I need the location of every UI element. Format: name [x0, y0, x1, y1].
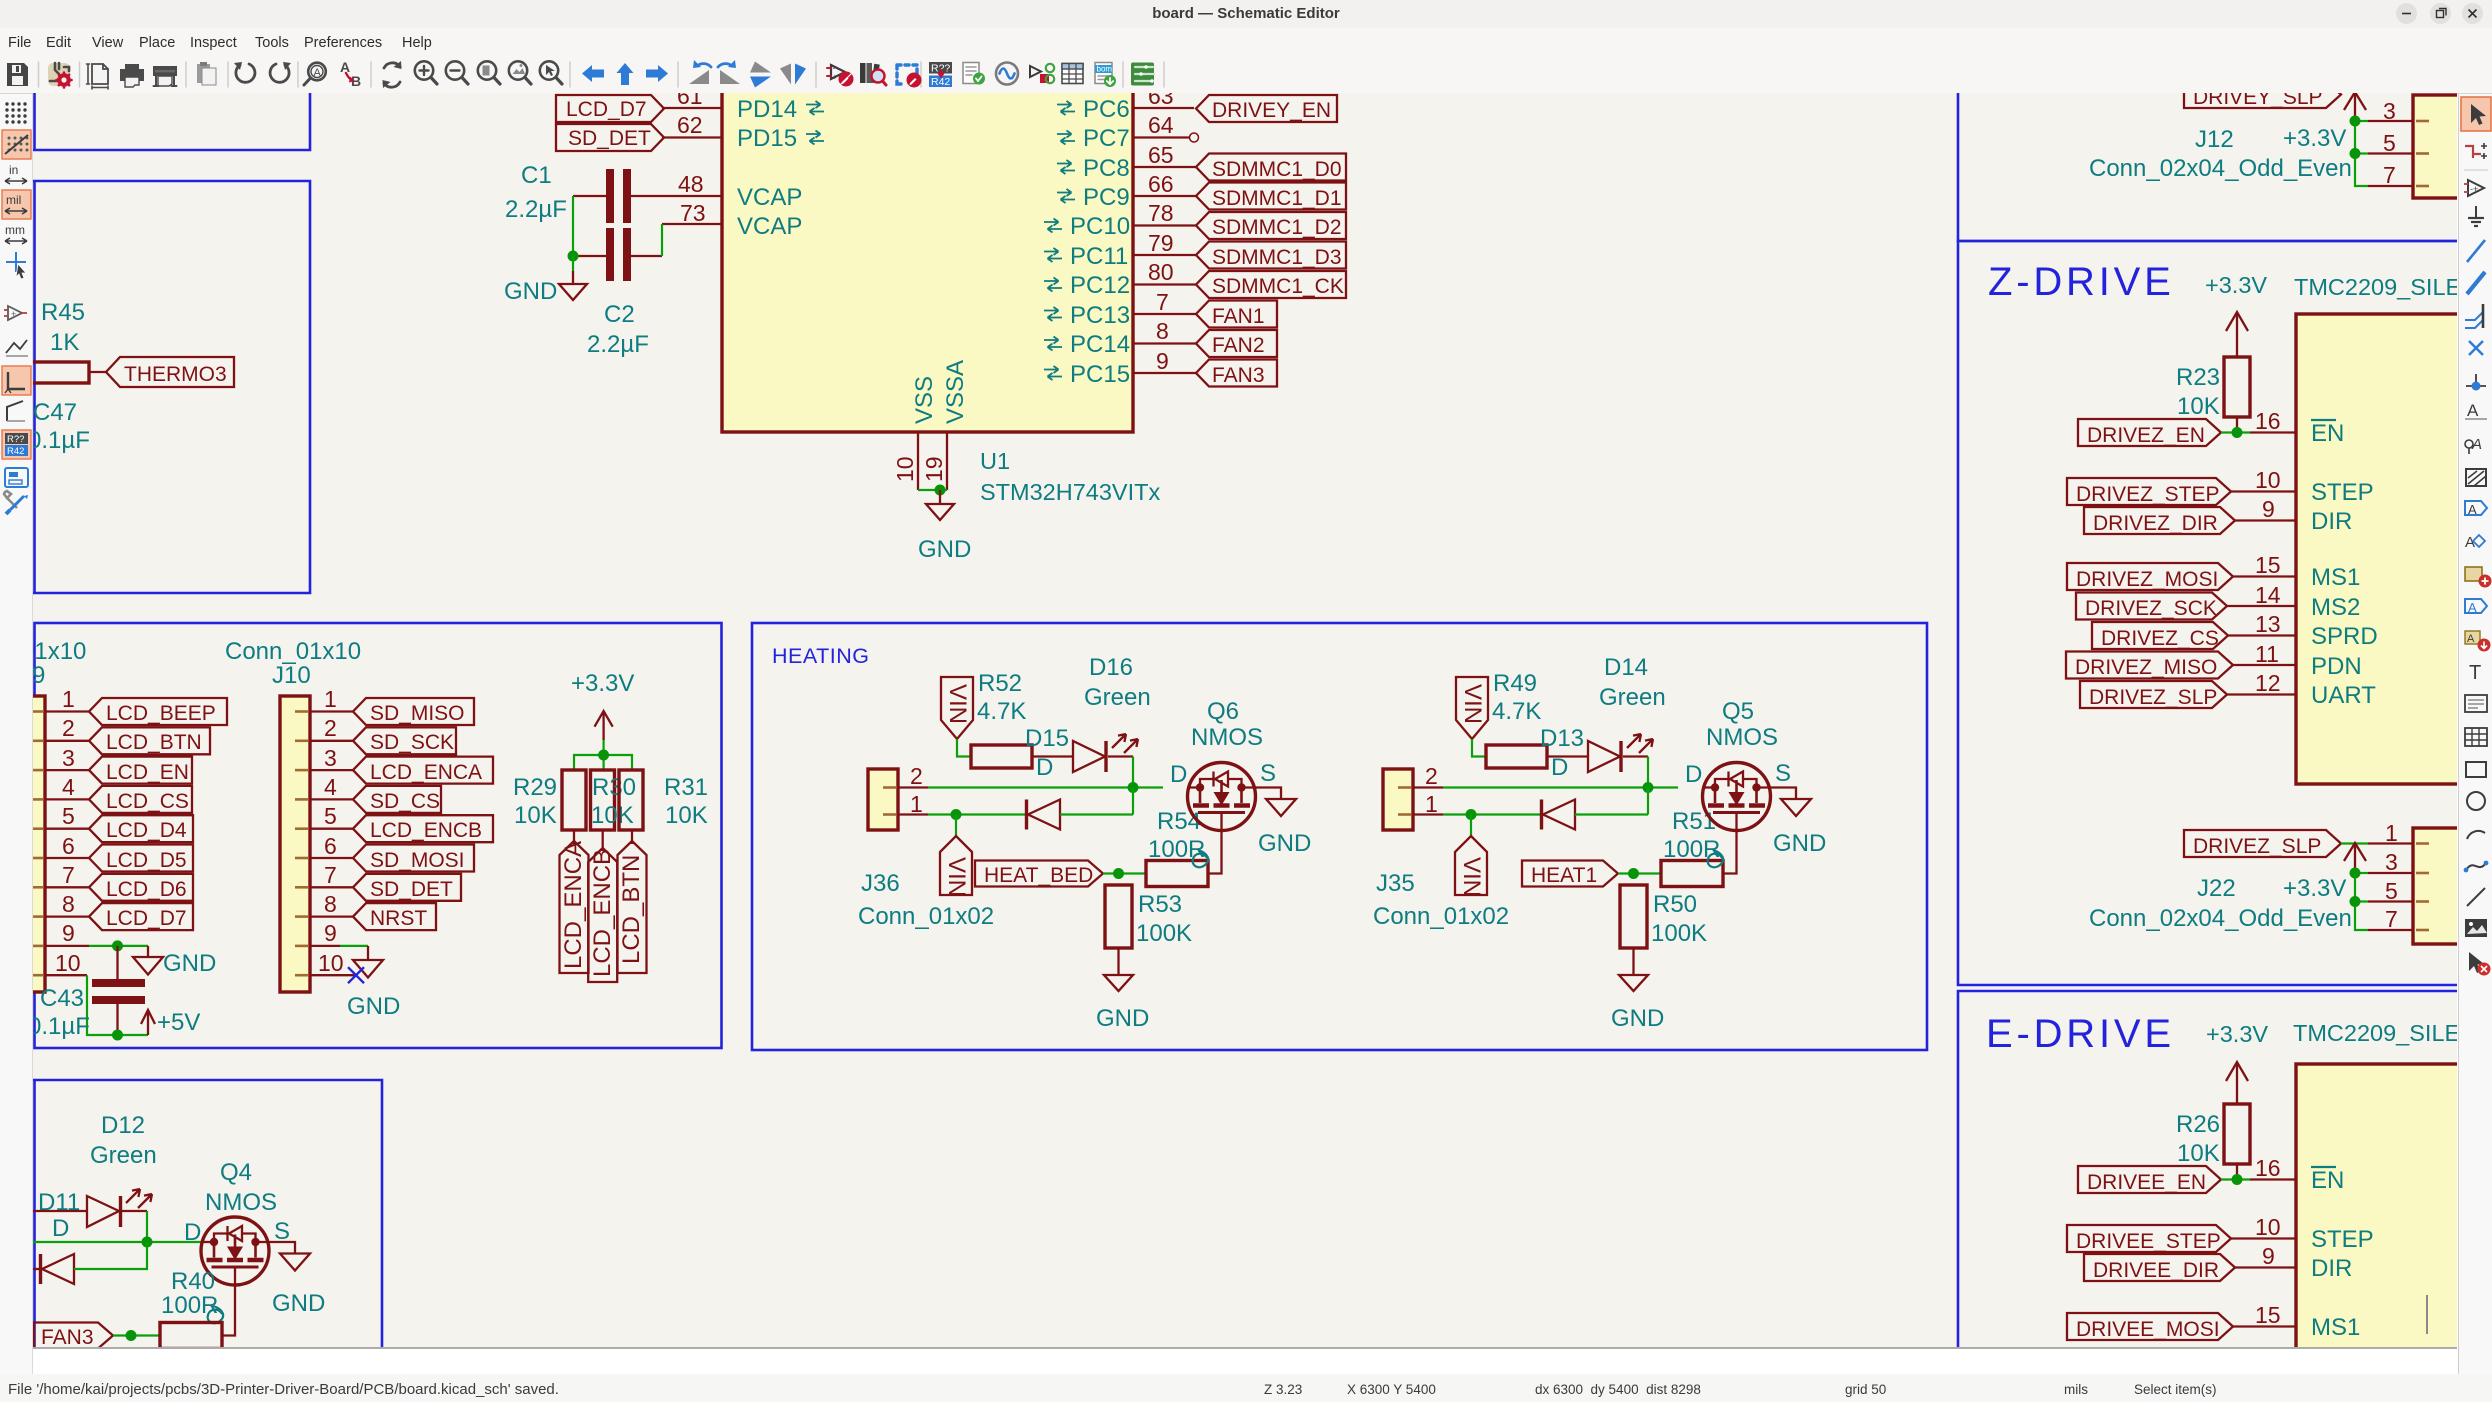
svg-text:LCD_ENCA: LCD_ENCA	[370, 761, 482, 784]
sheet frame box top-left partial	[33, 93, 310, 150]
svg-text:LCD_ENCB: LCD_ENCB	[589, 849, 616, 977]
svg-text:4: 4	[62, 774, 75, 800]
pin 64 stub	[1133, 136, 1190, 138]
pin 65 stub	[1133, 166, 1196, 168]
svg-text:8: 8	[324, 891, 337, 917]
pin 14 stub (Z MS2)	[2227, 605, 2296, 607]
svg-text:DRIVEY_EN: DRIVEY_EN	[1212, 99, 1331, 122]
J9 pin 7 stub	[45, 886, 89, 888]
svg-text:R30: R30	[592, 774, 636, 801]
label LCD_D4	[89, 815, 193, 842]
svg-text:LCD_D4: LCD_D4	[106, 819, 187, 842]
wire node vertical (D13)	[1647, 757, 1649, 788]
connector J22 body	[2413, 828, 2463, 944]
pin 7 stub	[1133, 313, 1196, 315]
svg-text:R50: R50	[1653, 891, 1697, 918]
wire J22 pin5	[2355, 900, 2368, 902]
status bar	[0, 1374, 2492, 1402]
svg-text:D13: D13	[1540, 725, 1584, 752]
full cursor icon	[6, 252, 26, 279]
delete tool icon	[2469, 952, 2491, 976]
svg-text:16: 16	[2255, 1155, 2281, 1181]
place symbol tool icon	[2464, 180, 2484, 196]
svg-text:Q5: Q5	[1722, 698, 1754, 725]
svg-text:R29: R29	[513, 774, 557, 801]
svg-text:9: 9	[2262, 496, 2275, 522]
wire flyback to node (Q5)	[1575, 813, 1648, 815]
svg-text:Q4: Q4	[220, 1159, 252, 1186]
circle tool icon	[2467, 792, 2485, 810]
svg-text:PC7: PC7	[1083, 125, 1130, 152]
find icon	[304, 63, 326, 85]
svg-text:LCD_D7: LCD_D7	[566, 98, 647, 121]
svg-text:D: D	[1170, 761, 1187, 788]
svg-text:LCD_ENCB: LCD_ENCB	[370, 819, 482, 842]
R40 value curl	[208, 1306, 223, 1323]
page settings icon	[87, 64, 109, 89]
svg-text:+3.3V: +3.3V	[2283, 875, 2346, 902]
svg-text:SD_DET: SD_DET	[568, 127, 651, 150]
junction U1 ground	[935, 485, 946, 496]
svg-text:Conn_02x04_Odd_Even: Conn_02x04_Odd_Even	[2089, 905, 2352, 932]
svg-text:100R: 100R	[161, 1292, 218, 1319]
J22 pin 5 stub	[2368, 900, 2413, 902]
svg-text:D: D	[184, 1219, 201, 1246]
svg-text:NMOS: NMOS	[205, 1189, 277, 1216]
pin EN name (Z) with overline	[2311, 420, 2344, 447]
svg-text:48: 48	[678, 171, 704, 197]
junction FAN3 gate node	[126, 1330, 137, 1341]
save icon	[7, 63, 28, 86]
svg-text:VIN: VIN	[1459, 684, 1486, 724]
svg-text:NMOS: NMOS	[1191, 724, 1263, 751]
svg-text:Conn_01x02: Conn_01x02	[858, 903, 994, 930]
flyback diode (fan3)	[33, 1254, 74, 1284]
svg-text:1K: 1K	[50, 329, 79, 356]
svg-text:VSSA: VSSA	[942, 360, 969, 424]
hierarchical label tool icon	[2465, 534, 2485, 551]
svg-text:R??: R??	[7, 434, 24, 445]
svg-text:A: A	[2467, 633, 2475, 645]
svg-text:TMC2209_SILEN: TMC2209_SILEN	[2293, 1020, 2457, 1046]
left palette	[0, 94, 33, 1374]
edit symbol icon	[827, 64, 854, 87]
svg-text:VIN: VIN	[944, 684, 971, 724]
svg-text:7: 7	[1156, 289, 1169, 315]
svg-text:9: 9	[62, 920, 75, 946]
svg-text:J36: J36	[861, 870, 900, 897]
sheet frame box Z-DRIVE	[1958, 241, 2457, 985]
svg-text:DIR: DIR	[2311, 1255, 2352, 1282]
power symbol +3.3V (J12)	[2344, 92, 2366, 121]
svg-text:DRIVEE_MOSI: DRIVEE_MOSI	[2076, 1318, 2220, 1341]
svg-text:DRIVEE_DIR: DRIVEE_DIR	[2093, 1259, 2219, 1282]
pin PC13 bidi glyph	[1044, 307, 1062, 321]
flyback diode (heat bed)	[1027, 800, 1061, 830]
hierarchy navigator icon	[5, 468, 28, 487]
wire DRIVEZ_SLP to J22 pin1	[2341, 842, 2368, 844]
mm unit icon	[5, 223, 27, 244]
R29 bottom stub	[573, 830, 575, 844]
svg-text:64: 64	[1148, 112, 1174, 138]
J10 pin 5 stub	[310, 828, 353, 830]
wire D11 to node	[122, 1210, 147, 1212]
pin PD14 bidi glyph	[806, 101, 824, 115]
label FAN3	[1196, 360, 1277, 388]
assign footprints icon	[1030, 64, 1054, 83]
J35 pin 2 stub	[1413, 786, 1443, 788]
wire C2 right up to pin 73	[661, 224, 663, 256]
pin 78 stub	[1133, 224, 1196, 226]
ground symbol (R53)	[1104, 975, 1133, 991]
grid override icon (selected)	[2, 130, 31, 159]
wire J22 pin3	[2355, 872, 2368, 874]
label HEAT_BED	[975, 861, 1103, 888]
svg-text:SDMMC1_D3: SDMMC1_D3	[1212, 246, 1342, 269]
label SD_SCK	[353, 727, 456, 754]
svg-text:EN: EN	[2311, 420, 2344, 447]
svg-text:DRIVEZ_MOSI: DRIVEZ_MOSI	[2076, 568, 2218, 591]
top toolbar	[0, 57, 2492, 94]
hierarchical sheet tool icon	[2465, 567, 2492, 588]
svg-text:2: 2	[910, 763, 923, 789]
arc tool icon	[2467, 831, 2485, 839]
pin EN name (E) with overline	[2311, 1167, 2344, 1194]
refresh icon	[383, 61, 402, 88]
LED D13	[1588, 734, 1653, 772]
svg-text:SD_CS: SD_CS	[370, 790, 440, 813]
svg-text:FAN2: FAN2	[1212, 334, 1265, 357]
canvas vertical scrollbar thumb	[2426, 1295, 2428, 1334]
wire DRIVEE_EN to pin 16	[2221, 1178, 2250, 1180]
wire FAN3 to R40	[113, 1334, 160, 1336]
resistor R52	[971, 745, 1032, 768]
zoom out icon	[446, 61, 468, 84]
title bar	[0, 0, 2492, 28]
svg-text:DRIVEE_EN: DRIVEE_EN	[2087, 1171, 2206, 1194]
svg-text:9: 9	[1156, 348, 1169, 374]
power symbol +3.3V (pullups)	[595, 711, 613, 740]
svg-text:8: 8	[1156, 318, 1169, 344]
svg-text:Conn_01x10: Conn_01x10	[225, 638, 361, 665]
svg-text:SDMMC1_D1: SDMMC1_D1	[1212, 187, 1342, 210]
svg-text:FAN1: FAN1	[1212, 305, 1265, 328]
sheet frame box left (thermistor section)	[33, 181, 310, 593]
svg-text:THERMO3: THERMO3	[124, 363, 227, 386]
label FAN2	[1196, 330, 1277, 357]
pin 62 stub	[662, 136, 722, 138]
svg-text:R49: R49	[1493, 670, 1537, 697]
resistor R49	[1486, 745, 1547, 768]
svg-text:1: 1	[324, 686, 337, 712]
junction C1/C2/GND	[568, 251, 579, 262]
svg-text:C47: C47	[33, 399, 77, 426]
svg-text:J12: J12	[2195, 126, 2234, 153]
label SD_DET (J10)	[353, 874, 461, 901]
wire J9 pin9 to GND	[89, 945, 148, 947]
wire HEAT_BED to R54	[1103, 872, 1146, 874]
svg-text:-: -	[833, 64, 836, 73]
svg-text:7: 7	[2383, 162, 2396, 188]
image tool icon	[2465, 919, 2487, 937]
label DRIVEY_EN	[1196, 95, 1337, 122]
sheet pin tool icon	[2465, 599, 2487, 615]
print icon	[120, 64, 144, 87]
svg-text:19: 19	[921, 456, 947, 482]
resistor R54	[1146, 861, 1208, 887]
label LCD_D7	[556, 95, 664, 122]
svg-text:+: +	[11, 309, 16, 319]
svg-text:C2: C2	[604, 301, 635, 328]
edit schematic icon	[897, 65, 922, 88]
pin 13 stub (Z SPRD)	[2228, 634, 2296, 636]
junction gate node (Q5)	[1628, 868, 1639, 879]
svg-text:LCD_EN: LCD_EN	[106, 761, 189, 784]
wire D15 to node	[1108, 755, 1133, 757]
svg-text:6: 6	[324, 833, 337, 859]
library browser icon	[860, 63, 886, 85]
annotate icon	[929, 62, 952, 88]
wire node vertical (Q4)	[146, 1211, 148, 1242]
rotate ccw icon	[689, 60, 711, 84]
svg-text:R23: R23	[2176, 364, 2220, 391]
svg-text:10K: 10K	[2177, 1140, 2220, 1167]
svg-text:7: 7	[2385, 906, 2398, 932]
grid dots icon	[5, 102, 26, 123]
svg-text:Green: Green	[1599, 684, 1666, 711]
svg-text:C1: C1	[521, 162, 552, 189]
J36 pin 1 stub	[898, 813, 928, 815]
cursor snap ring	[1190, 133, 1199, 142]
svg-text:63: 63	[1148, 93, 1174, 109]
ground symbol (U1)	[926, 490, 954, 520]
J36 pin 2 stub	[898, 786, 928, 788]
find and replace icon	[340, 59, 361, 89]
svg-text:STEP: STEP	[2311, 1226, 2374, 1253]
J9 pin 5 stub	[45, 828, 89, 830]
svg-text:PC15: PC15	[1070, 361, 1130, 388]
svg-text:12: 12	[2255, 670, 2281, 696]
svg-text:13: 13	[2255, 611, 2281, 637]
pin 9 stub (E DIR)	[2235, 1266, 2296, 1268]
separators	[39, 62, 1165, 87]
ground symbol (C2)	[559, 271, 587, 300]
svg-text:S: S	[1775, 760, 1791, 787]
resistor R31	[619, 770, 643, 830]
svg-text:10: 10	[2255, 467, 2281, 493]
no connect tool icon	[2469, 341, 2483, 355]
hidden pins icon	[4, 306, 27, 320]
navigate forward icon	[646, 65, 668, 82]
net label tool icon	[2465, 401, 2487, 420]
pin PC12 bidi glyph	[1044, 278, 1062, 292]
J12 pin 5 stub	[2368, 152, 2413, 154]
line tool icon	[2467, 888, 2485, 906]
label FAN3 (driver)	[34, 1323, 113, 1350]
wire J36 pin2 to Q6 drain	[928, 786, 1163, 788]
svg-text:J10: J10	[272, 662, 311, 689]
svg-text:100R: 100R	[1663, 836, 1720, 863]
label SD_DET	[556, 124, 664, 151]
junction J22 pin3	[2350, 868, 2361, 879]
svg-text:9: 9	[324, 920, 337, 946]
junction DRIVEZ_EN	[2232, 427, 2243, 438]
svg-text:PD15: PD15	[737, 125, 797, 152]
svg-text:7: 7	[62, 862, 75, 888]
J10 pin 8 stub	[310, 915, 353, 917]
pin PC7 bidi glyph	[1057, 131, 1075, 145]
pin 10 stub (VSS)	[917, 432, 919, 490]
transistor Q5	[1703, 763, 1771, 831]
simulator icon	[996, 63, 1018, 85]
wire VSS-VSSA join	[918, 489, 947, 491]
svg-text:GND: GND	[1258, 830, 1311, 857]
junction +3.3V rail	[598, 750, 609, 761]
svg-text:MS1: MS1	[2311, 564, 2360, 591]
svg-text:MS1: MS1	[2311, 1314, 2360, 1341]
svg-text:7: 7	[324, 862, 337, 888]
ground symbol (Q4)	[280, 1254, 310, 1271]
pin 8 stub	[1133, 342, 1196, 344]
wire Q6 source to GND	[1242, 788, 1282, 800]
svg-text:SDMMC1_D2: SDMMC1_D2	[1212, 216, 1342, 239]
ground symbol (J10)	[353, 946, 383, 978]
junction gate node	[1113, 868, 1124, 879]
resistor R26	[2224, 1104, 2250, 1164]
label DRIVEZ_EN	[2078, 419, 2221, 447]
op-amp U? TMC2209 body (Z)	[2296, 314, 2471, 784]
R26 bottom stub	[2236, 1164, 2238, 1180]
svg-text:PC12: PC12	[1070, 272, 1130, 299]
J12 pin ticks	[2416, 121, 2429, 186]
highlight net tool icon	[2465, 143, 2487, 159]
svg-text:SPRD: SPRD	[2311, 623, 2378, 650]
junction drain node (Q5)	[1643, 782, 1654, 793]
svg-text:mil: mil	[6, 193, 21, 207]
wire C1 left to C2 left	[572, 196, 574, 256]
svg-text:HEATING: HEATING	[772, 644, 869, 668]
svg-text:R26: R26	[2176, 1111, 2220, 1138]
svg-text:6: 6	[62, 833, 75, 859]
pin 10 stub (E STEP)	[2231, 1237, 2296, 1239]
zoom to fit icon	[478, 61, 500, 84]
wire J36 pin1 to VIN	[955, 815, 957, 837]
svg-text:5: 5	[324, 803, 337, 829]
J10 pin 4 stub	[310, 798, 353, 800]
wire J12 +3.3V rail	[2355, 121, 2368, 186]
mirror horizontally icon	[780, 64, 806, 85]
wire flyback to node	[1060, 813, 1133, 815]
label LCD_D6	[89, 874, 193, 901]
pin PC14 bidi glyph	[1044, 337, 1062, 351]
svg-text:DRIVEZ_DIR: DRIVEZ_DIR	[2093, 512, 2218, 535]
wire fan conn to Q4 drain	[33, 1241, 202, 1243]
svg-text:R52: R52	[978, 670, 1022, 697]
svg-text:GND: GND	[1096, 1005, 1149, 1032]
sheet frame box E-DRIVE	[1958, 991, 2457, 1348]
svg-text:4: 4	[324, 774, 337, 800]
svg-text:5: 5	[2385, 878, 2398, 904]
junction J12 pin5	[2350, 148, 2361, 159]
svg-text:GND: GND	[504, 278, 557, 305]
J10 pin 10 stub	[310, 974, 356, 976]
svg-text:D: D	[1685, 761, 1702, 788]
svg-text:DRIVEZ_CS: DRIVEZ_CS	[2101, 627, 2219, 650]
pin PD15 bidi glyph	[806, 131, 824, 145]
svg-text:TMC2209_SILEN: TMC2209_SILEN	[2294, 274, 2457, 300]
J22 pin 1 stub	[2368, 842, 2413, 844]
zoom to objects icon	[509, 61, 531, 84]
J9 pin 2 stub	[45, 740, 89, 742]
svg-text:Green: Green	[90, 1142, 157, 1169]
sheet frame box bottom-left (fan drivers)	[33, 1080, 382, 1348]
wire node vertical lower (Q5)	[1647, 788, 1649, 815]
select tool icon (active)	[2461, 97, 2491, 131]
svg-text:D15: D15	[1025, 725, 1069, 752]
connector J9 body (clipped)	[12, 696, 45, 992]
label SDMMC1_D0	[1196, 154, 1346, 182]
R30 bottom stub	[602, 830, 604, 851]
svg-text:HEAT_BED: HEAT_BED	[984, 864, 1093, 887]
resistor R40	[160, 1323, 222, 1349]
svg-text:15: 15	[2255, 552, 2281, 578]
label DRIVEZ_SLP (J22)	[2184, 830, 2341, 858]
J9 pin ticks	[30, 712, 43, 976]
svg-text:VIN: VIN	[943, 857, 970, 897]
svg-text:STM32H743VITx: STM32H743VITx	[980, 479, 1160, 505]
ground symbol (Q6)	[1266, 799, 1296, 816]
sheet frame box HEATING	[752, 623, 1927, 1050]
svg-text:A: A	[2468, 502, 2477, 517]
label DRIVEZ_SCK	[2076, 593, 2227, 621]
pin 19 stub (VSSA)	[946, 432, 948, 490]
label DRIVEE_EN	[2078, 1166, 2221, 1194]
svg-text:Conn_02x04_Odd_Even: Conn_02x04_Odd_Even	[2089, 155, 2352, 182]
label LCD_D5	[89, 845, 193, 873]
svg-text:SD_MOSI: SD_MOSI	[370, 849, 465, 872]
wire J36 pin1 to flyback diode	[928, 813, 1025, 815]
svg-text:+3.3V: +3.3V	[2206, 1021, 2268, 1047]
svg-text:9: 9	[2262, 1243, 2275, 1269]
power symbol VIN (J35)	[1455, 836, 1487, 897]
svg-text:10: 10	[55, 950, 81, 976]
wire Q5 source to GND	[1757, 788, 1797, 800]
connector J12 body	[2413, 95, 2463, 198]
op-amp U1 STM32H743VITx body	[722, 60, 1133, 432]
J10 pin 6 stub	[310, 857, 353, 859]
junction J9 pin9	[112, 940, 123, 951]
label DRIVEE_STEP	[2067, 1225, 2231, 1253]
pin PC9 bidi glyph	[1057, 189, 1075, 203]
svg-text:9: 9	[33, 662, 45, 689]
junction J22 pin5	[2350, 896, 2361, 907]
pin 9 stub (Z DIR)	[2235, 519, 2296, 521]
svg-text:S: S	[1260, 760, 1276, 787]
wire flyback to node (Q4)	[74, 1242, 147, 1269]
J10 pin 3 stub	[310, 769, 353, 771]
svg-text:E-DRIVE: E-DRIVE	[1986, 1012, 2175, 1056]
svg-text:80: 80	[1148, 259, 1174, 285]
45deg wires icon	[7, 401, 25, 421]
svg-text:5: 5	[2383, 130, 2396, 156]
svg-text:2.2µF: 2.2µF	[505, 196, 567, 223]
pin 12 stub (Z UART)	[2227, 693, 2296, 695]
pin 79 stub	[1133, 254, 1196, 256]
resistor R53	[1105, 885, 1132, 948]
J10 pin 2 stub	[310, 740, 353, 742]
bezier tool icon	[2464, 861, 2489, 873]
wire fan conn to D11	[33, 1210, 87, 1212]
